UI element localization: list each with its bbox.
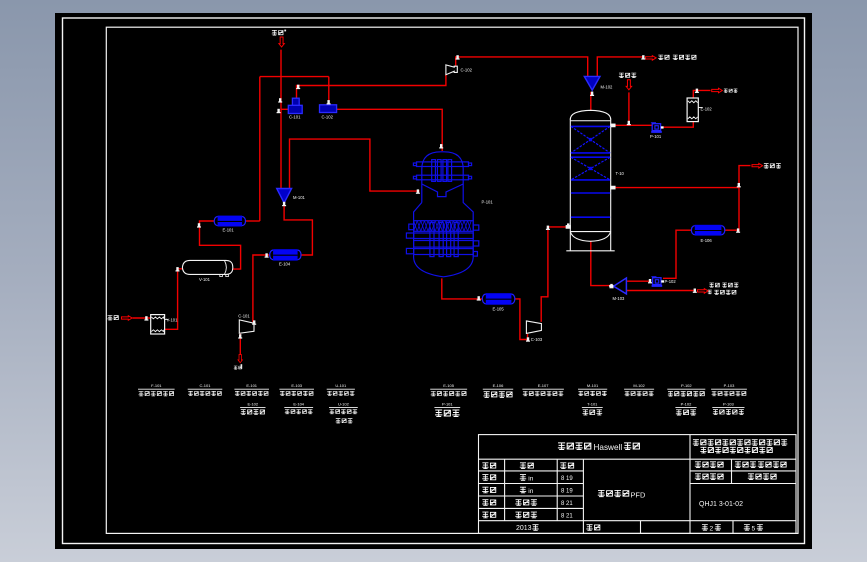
label bottoms to treatment line1 xyxy=(709,283,738,287)
svg-text:2: 2 xyxy=(710,525,714,532)
wire: mixer M-101 outlet to exchanger E-104 xyxy=(284,202,312,255)
svg-text:in: in xyxy=(528,475,533,482)
reactor R-101 xyxy=(406,152,478,277)
svg-text:P-101: P-101 xyxy=(482,200,494,205)
equipment tag M-101 xyxy=(578,383,607,396)
svg-text:C-101: C-101 xyxy=(238,313,250,318)
label vent to incinerator xyxy=(658,55,696,60)
svg-text:E-102: E-102 xyxy=(247,401,258,406)
wire: E-101 outlet xyxy=(246,220,260,222)
label bottoms to treatment line2 xyxy=(708,290,736,294)
equipment tag P-101 xyxy=(434,401,460,416)
label cooling water return xyxy=(724,89,738,93)
equipment tag F-101 xyxy=(138,383,175,396)
wire: mixer M-102 to column top xyxy=(590,92,592,110)
equipment tag E-103 xyxy=(279,383,314,396)
equipment tag P-102 xyxy=(667,383,705,396)
wire: pump P-103 discharge to E-107 xyxy=(663,230,691,278)
svg-text:E-101: E-101 xyxy=(223,227,235,232)
equipment tag E-101 xyxy=(234,383,269,396)
svg-text:U-102: U-102 xyxy=(338,401,350,406)
exchanger E-105 xyxy=(482,293,514,305)
svg-text:M-102: M-102 xyxy=(633,383,645,388)
mixer M-101 xyxy=(277,189,292,204)
svg-text:M-101: M-101 xyxy=(293,195,306,200)
wire: E-102 to cooling water return xyxy=(693,90,710,98)
svg-text:C-102: C-102 xyxy=(461,68,473,73)
equipment tag E-107 xyxy=(522,383,564,396)
wire: E-104 inlet from compressor C-101 xyxy=(253,255,270,322)
equipment tag M-102 xyxy=(624,383,654,396)
svg-text:in: in xyxy=(528,488,533,495)
node: bottoms outlet arrow xyxy=(698,289,709,294)
label cooling water inlet xyxy=(619,73,637,78)
equipment tag P-103 xyxy=(712,401,744,414)
wire: column bottoms to ejector M-103 xyxy=(591,241,613,286)
compressor C-101 xyxy=(239,320,254,333)
svg-text:P-103: P-103 xyxy=(723,401,734,406)
svg-text:8 21: 8 21 xyxy=(561,501,573,507)
svg-text:8 19: 8 19 xyxy=(561,476,573,482)
wire: E-105 to fan C-103 suction xyxy=(515,299,528,340)
title block texts xyxy=(482,440,787,533)
pump P-103 xyxy=(651,276,664,287)
equipment tag E-105 xyxy=(430,383,467,396)
equipment tag U-101 xyxy=(327,383,355,396)
wire: reactor bottom to exchanger E-105 xyxy=(442,278,483,299)
svg-text:E-103: E-103 xyxy=(291,383,302,388)
wire: fan C-103 discharge to column T-101 xyxy=(541,227,570,322)
svg-text:C-101: C-101 xyxy=(200,383,212,388)
wire: bottoms out to treatment xyxy=(627,290,694,292)
filter F-101 xyxy=(151,315,169,334)
svg-text:M-103: M-103 xyxy=(613,296,626,301)
wire: recycle loop to reactor side xyxy=(290,139,420,191)
svg-text:F-101: F-101 xyxy=(151,383,162,388)
ejector M-103 xyxy=(609,278,626,294)
svg-text:P-102: P-102 xyxy=(681,401,692,406)
wire: oxygen feed down to mixer M-101 xyxy=(280,50,282,189)
node: cooling water return arrow xyxy=(712,88,723,93)
svg-text:M-102: M-102 xyxy=(601,84,614,89)
svg-text:P-102: P-102 xyxy=(681,383,692,388)
wire: compressor C-101 drain xyxy=(239,334,241,355)
equipment tag P-103 xyxy=(711,383,747,396)
blower B-102 xyxy=(320,105,337,113)
equipment tag U-102 xyxy=(329,401,358,423)
svg-text:P-102: P-102 xyxy=(665,279,677,284)
label air feed xyxy=(107,315,118,320)
svg-text:E-105: E-105 xyxy=(493,306,505,311)
cooler E-102 (vertical) xyxy=(687,98,703,122)
column T-101 xyxy=(566,110,615,251)
svg-text:M-101: M-101 xyxy=(587,383,599,388)
exchanger E-107 xyxy=(691,225,724,236)
wire: fan C-102 discharge to mixer M-102 xyxy=(456,57,588,76)
svg-text:8 21: 8 21 xyxy=(561,513,573,519)
svg-text:C-101: C-101 xyxy=(289,114,301,119)
svg-text:E-106: E-106 xyxy=(493,383,504,388)
svg-text:QHJ1 3-01-02: QHJ1 3-01-02 xyxy=(699,501,743,508)
wire: filter F-101 to drum V-101 xyxy=(165,269,183,330)
label crude formaldehyde xyxy=(764,164,781,168)
svg-text:5: 5 xyxy=(752,525,756,532)
wire: cooling water into condenser line xyxy=(628,92,630,125)
wire: air to filter F-101 xyxy=(133,317,151,319)
equipment tag E-106 xyxy=(483,383,513,398)
blower B-101 xyxy=(288,98,302,113)
fan C-103 (bottom) xyxy=(526,321,541,334)
svg-text:E-104: E-104 xyxy=(293,401,304,406)
svg-text:2013: 2013 xyxy=(516,525,532,532)
svg-text:E-107: E-107 xyxy=(538,383,549,388)
exchanger E-104 xyxy=(270,249,301,260)
node: air feed arrow xyxy=(122,316,133,321)
svg-text:E-102: E-102 xyxy=(701,107,713,112)
wire: right branch down to blower B-102 xyxy=(328,77,330,105)
svg-text:P-101: P-101 xyxy=(650,134,662,139)
svg-text:V-101: V-101 xyxy=(167,318,179,323)
pump P-101 xyxy=(651,122,664,133)
wire: E-107 outlet up to product xyxy=(725,166,751,231)
wire: header across at y=76.6 xyxy=(260,76,329,78)
svg-text:PFD: PFD xyxy=(631,491,646,500)
inner border frame xyxy=(106,27,798,533)
svg-text:E-106: E-106 xyxy=(701,238,713,243)
wire: vent to incinerator xyxy=(597,57,644,76)
svg-text:C-102: C-102 xyxy=(322,114,334,119)
equipment tag P-102 xyxy=(675,401,696,415)
svg-text:U-101: U-101 xyxy=(335,383,347,388)
equipment tag C-101 xyxy=(188,383,223,396)
svg-text:V-101: V-101 xyxy=(199,277,211,282)
drum V-101 (horizontal vessel) xyxy=(182,260,232,276)
wire: stub to blower B-101 inlet xyxy=(281,108,288,110)
exchanger E-101 xyxy=(214,216,245,227)
svg-text:P-103: P-103 xyxy=(724,383,735,388)
wire: column overhead to pump P-101 xyxy=(614,124,652,126)
wire: drum V-101 to exchanger E-101 xyxy=(200,221,241,269)
svg-text:P-101: P-101 xyxy=(442,401,453,406)
wire: blower B-101 top to fan C-102 suction xyxy=(297,75,446,98)
mixer M-102 xyxy=(584,76,600,90)
node: cooling water inlet arrow xyxy=(626,80,631,90)
wire: left branch down to E-101 outlet xyxy=(259,77,261,221)
label oxygen feed xyxy=(272,30,286,36)
node: crude product arrow xyxy=(752,163,763,168)
svg-text:8 19: 8 19 xyxy=(561,489,573,495)
wire: column side draw xyxy=(615,187,740,189)
svg-text:C-103: C-103 xyxy=(531,337,543,342)
equipment tag E-102 xyxy=(240,401,265,414)
wire: blower B-102 discharge to reactor top xyxy=(337,109,443,151)
node: vent arrow xyxy=(646,56,657,61)
svg-text:E-104: E-104 xyxy=(279,262,291,267)
svg-text:T-10: T-10 xyxy=(616,171,625,176)
node: compressor drain arrow xyxy=(234,355,243,370)
fan C-102 (top) xyxy=(446,65,457,75)
wire: pump P-101 to cooler E-102 xyxy=(662,122,694,128)
wire: ejector to pump P-103 xyxy=(627,280,650,282)
junction ticks xyxy=(144,55,740,342)
title block xyxy=(479,435,797,534)
svg-text:Haswell: Haswell xyxy=(594,443,623,452)
node: oxygen feed arrow (top) xyxy=(279,37,284,47)
equipment tag E-104 xyxy=(284,401,313,413)
svg-text:E-105: E-105 xyxy=(443,383,454,388)
equipment tag T-101 xyxy=(582,401,603,415)
svg-text:E-101: E-101 xyxy=(246,383,257,388)
svg-text:T-101: T-101 xyxy=(587,401,598,406)
